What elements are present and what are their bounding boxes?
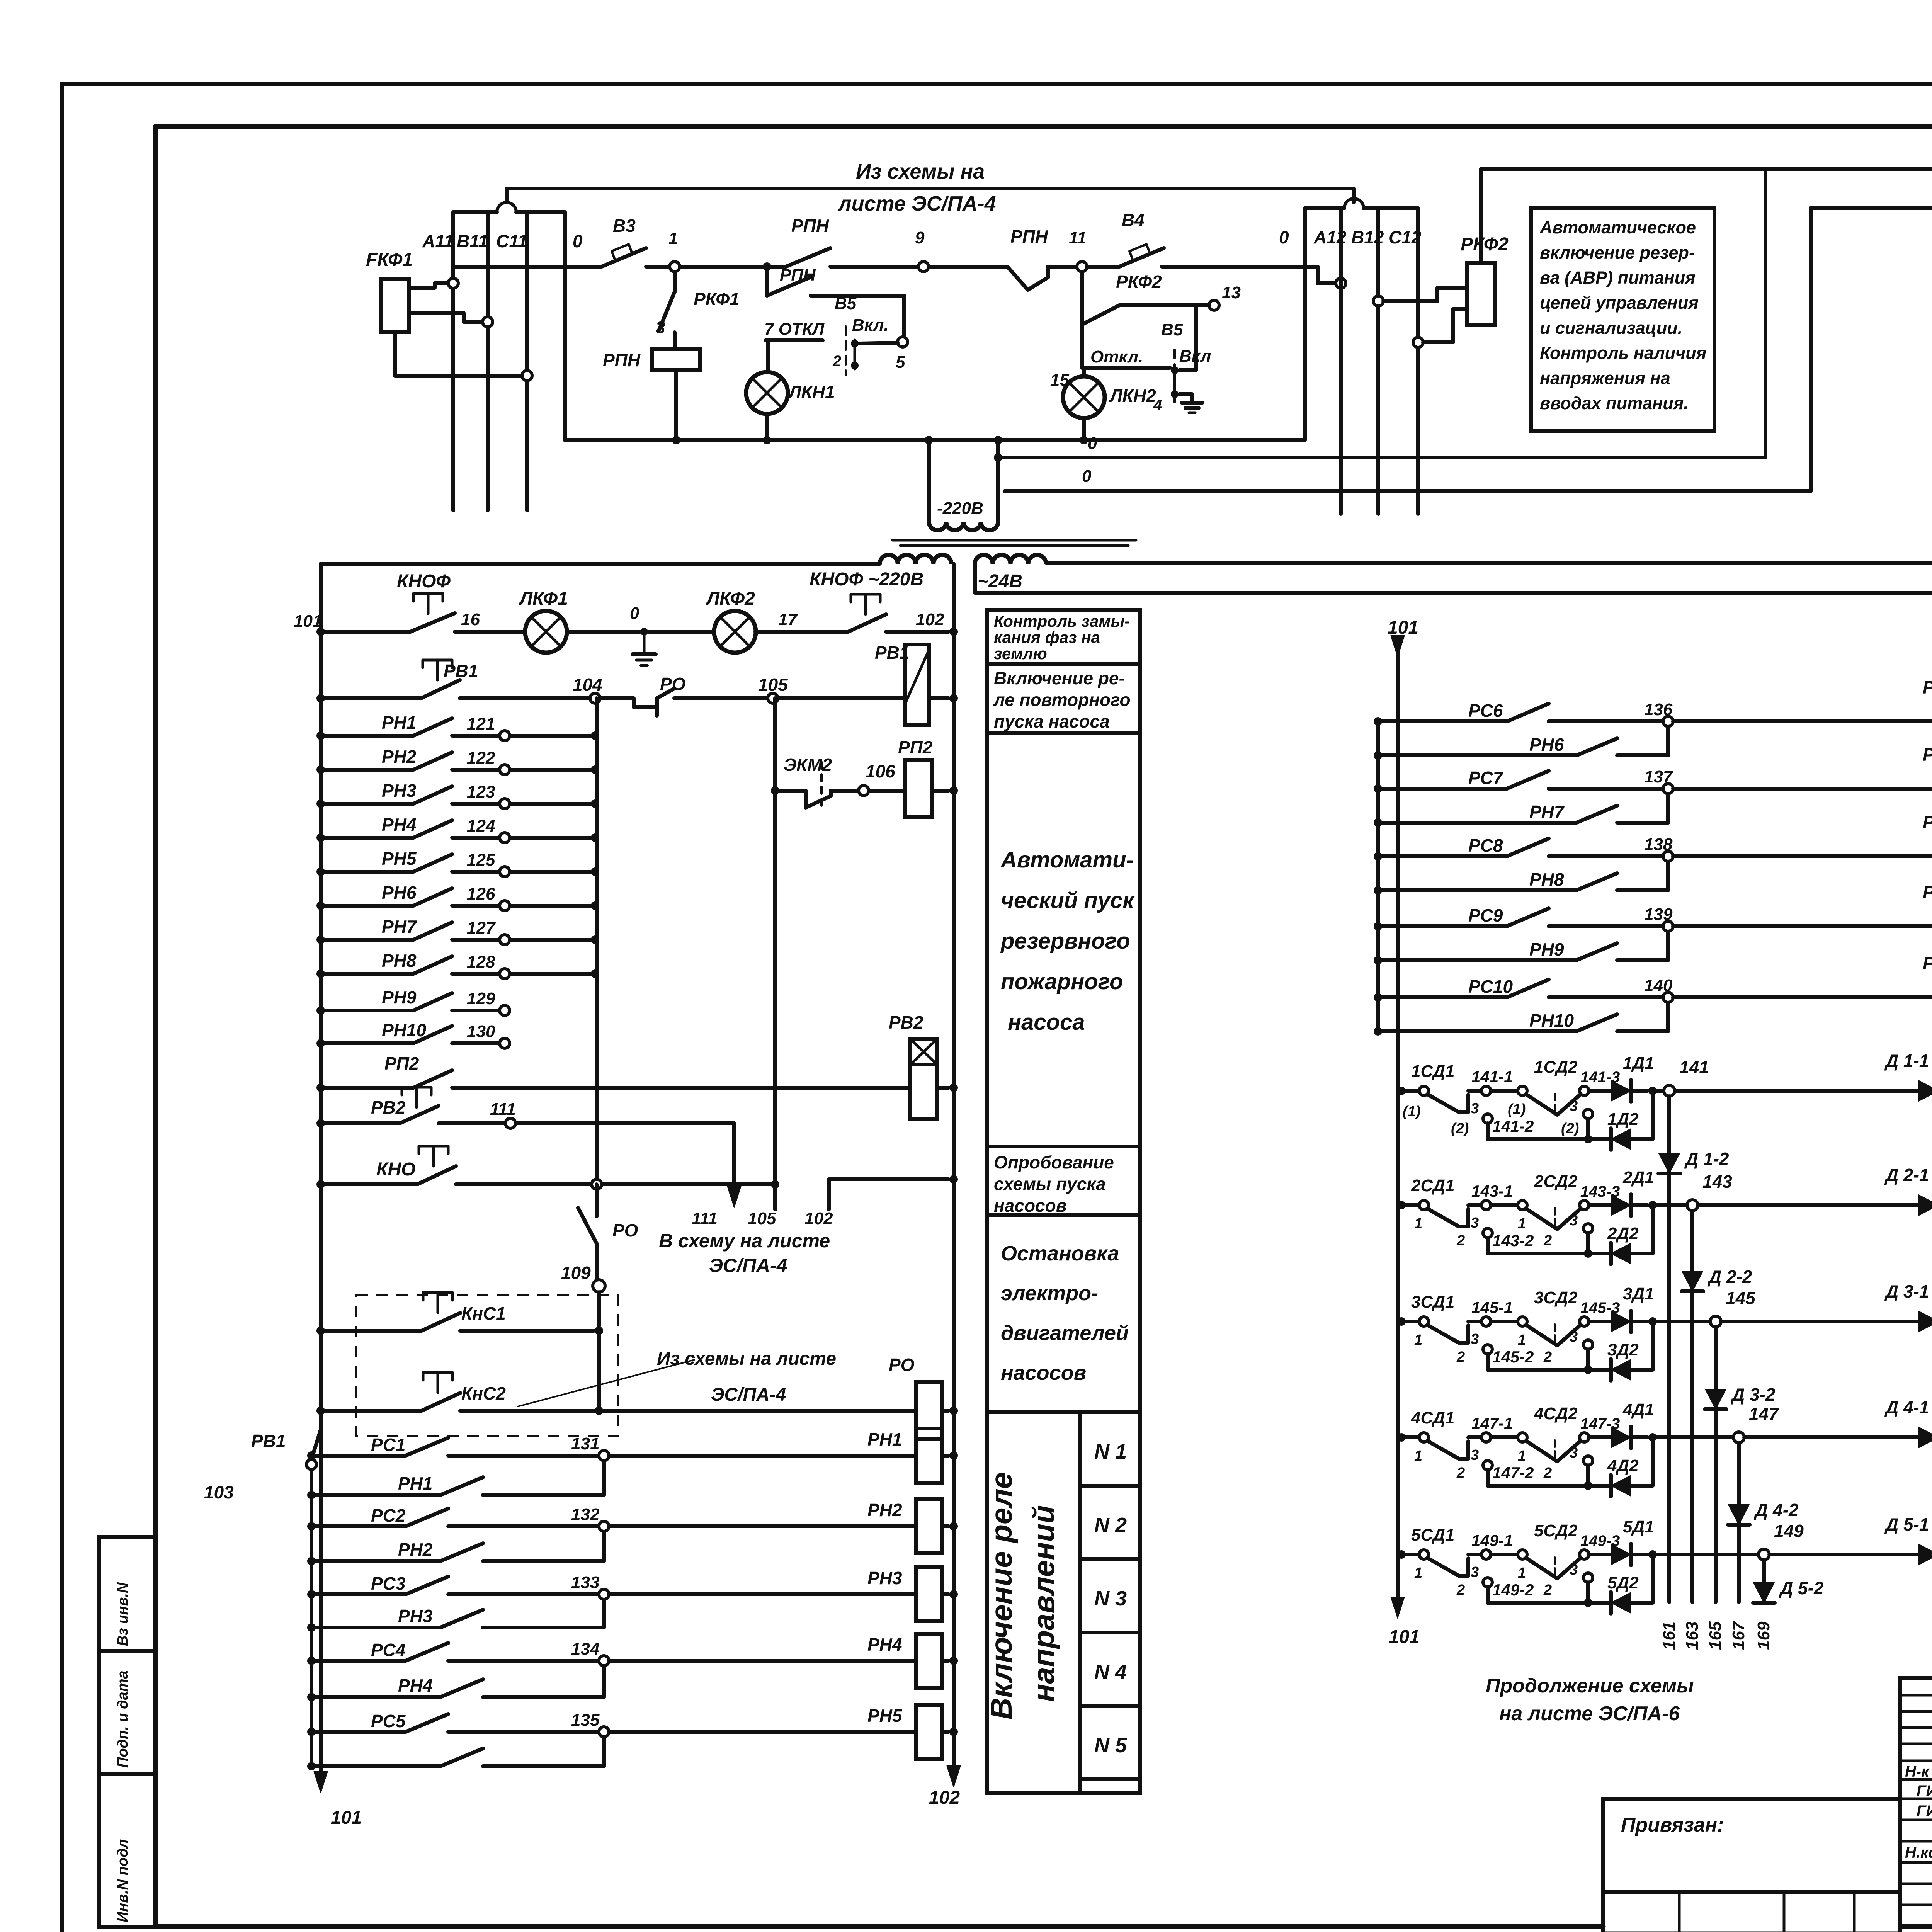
svg-text:149-2: 149-2 <box>1492 1581 1534 1599</box>
switch 3SD1 terminal 2 <box>1483 1345 1492 1354</box>
junction column 105 <box>773 698 777 1179</box>
svg-text:РН4: РН4 <box>398 1675 432 1696</box>
relay contact RN10 holding row <box>1374 1027 1382 1036</box>
svg-text:РП2: РП2 <box>384 1053 419 1073</box>
svg-text:КНОФ: КНОФ <box>397 571 451 592</box>
svg-text:КнС2: КнС2 <box>461 1383 506 1403</box>
svg-text:(1): (1) <box>1403 1104 1420 1120</box>
svg-text:109: 109 <box>561 1263 591 1283</box>
wire to sheet ES/PA-7 (lower) <box>1811 206 1932 210</box>
transformer primary -220V <box>927 440 931 522</box>
svg-text:5Д2: 5Д2 <box>1607 1573 1639 1592</box>
svg-text:Вз инв.N: Вз инв.N <box>115 1582 131 1646</box>
svg-text:Д 5-2: Д 5-2 <box>1779 1578 1824 1598</box>
wire C12 to RKF2 coil <box>1413 337 1423 347</box>
svg-text:Продолжение схемы: Продолжение схемы <box>1486 1675 1694 1697</box>
node 106 <box>831 789 859 793</box>
diode D3-2 <box>1705 1389 1726 1409</box>
diode D2-1 <box>1698 1203 1918 1207</box>
bypass branch with diode 3D2 (net 145-2) <box>1488 1368 1588 1372</box>
svg-text:130: 130 <box>467 1022 495 1041</box>
svg-text:В5: В5 <box>835 294 857 313</box>
relay contact RN3 holding row <box>307 1623 316 1632</box>
svg-text:4СД2: 4СД2 <box>1534 1404 1578 1423</box>
svg-text:0: 0 <box>1082 467 1092 486</box>
svg-text:9: 9 <box>915 228 925 247</box>
rail 101 (left ladder) <box>321 562 880 566</box>
svg-text:РС4: РС4 <box>371 1640 405 1660</box>
wire LKN2 to bottom rail <box>1082 418 1086 440</box>
relay contact RS3 row (net 133) <box>307 1590 316 1599</box>
svg-text:1: 1 <box>668 229 678 248</box>
svg-text:РН3: РН3 <box>867 1568 902 1588</box>
relay contact RPN (third, to node 5) <box>763 262 771 271</box>
svg-text:Д 3-1: Д 3-1 <box>1884 1281 1929 1301</box>
svg-text:Включение реле: Включение реле <box>984 1472 1018 1719</box>
svg-text:ЭС/ПА-4: ЭС/ПА-4 <box>711 1384 786 1405</box>
relay contact RN4 row (net 124) <box>321 836 413 840</box>
svg-text:В4: В4 <box>1122 210 1145 230</box>
relay contact RN6 holding row <box>1374 751 1382 760</box>
svg-text:169: 169 <box>1754 1621 1773 1650</box>
svg-text:3: 3 <box>1471 1100 1479 1117</box>
pushbutton KnS1 row <box>321 1329 422 1333</box>
wire net 169 <box>1762 1560 1766 1602</box>
svg-text:125: 125 <box>467 850 495 869</box>
svg-text:163: 163 <box>1683 1622 1702 1650</box>
svg-text:Из схемы на: Из схемы на <box>856 160 985 183</box>
svg-text:133: 133 <box>571 1573 599 1592</box>
svg-text:насосов: насосов <box>994 1196 1067 1216</box>
svg-text:РН10: РН10 <box>382 1020 426 1040</box>
bottom rail of top circuit (0) <box>565 438 1305 442</box>
svg-text:пожарного: пожарного <box>1001 969 1123 994</box>
svg-text:17: 17 <box>778 610 798 629</box>
pushbutton KNOF (second) <box>848 614 886 632</box>
svg-text:Д 1-2: Д 1-2 <box>1684 1149 1729 1169</box>
svg-text:РН3: РН3 <box>398 1606 433 1626</box>
svg-text:Откл.: Откл. <box>1090 347 1143 366</box>
svg-text:1: 1 <box>1414 1448 1422 1464</box>
relay contact RN3 row (net 123) <box>321 802 413 806</box>
svg-text:РН4: РН4 <box>382 815 416 835</box>
svg-text:2: 2 <box>1543 1233 1552 1249</box>
pushbutton KnS2 row <box>321 1409 422 1413</box>
svg-text:105: 105 <box>748 1209 776 1228</box>
svg-text:Д 3-2: Д 3-2 <box>1730 1384 1776 1405</box>
node 147 <box>1653 1435 1733 1439</box>
svg-text:3: 3 <box>1570 1445 1578 1461</box>
wire V4 to bus A12 <box>1162 265 1318 269</box>
svg-text:ЛКФ1: ЛКФ1 <box>519 588 568 609</box>
relay contact RN9 row (net 129) <box>321 1009 413 1012</box>
svg-text:Инв.N подл: Инв.N подл <box>115 1839 131 1922</box>
svg-text:102: 102 <box>916 610 944 629</box>
svg-text:напряжения на: напряжения на <box>1540 368 1670 388</box>
svg-text:4СД1: 4СД1 <box>1411 1408 1455 1427</box>
svg-text:1: 1 <box>1414 1565 1422 1581</box>
svg-text:Включение ре-: Включение ре- <box>994 668 1125 688</box>
svg-text:102: 102 <box>929 1787 960 1808</box>
svg-text:149: 149 <box>1774 1521 1804 1541</box>
svg-text:направлений: направлений <box>1027 1505 1061 1702</box>
relay contact RS9 row (net 139) <box>1374 922 1382 930</box>
wire node1 to RPN contact <box>680 265 786 269</box>
svg-text:землю: землю <box>994 645 1047 663</box>
svg-text:РН10: РН10 <box>1923 953 1932 973</box>
svg-text:РН1: РН1 <box>398 1473 432 1493</box>
wire 105 down to sheet ES/PA-4 <box>773 1184 777 1209</box>
svg-text:Вкл.: Вкл. <box>852 316 889 335</box>
svg-text:N 3: N 3 <box>1094 1587 1127 1610</box>
svg-text:111: 111 <box>692 1209 718 1228</box>
svg-text:N 2: N 2 <box>1094 1514 1127 1537</box>
wire RKF2 coil up to ES/PA-7 line <box>1479 169 1483 263</box>
wire A11 to switch V3 <box>453 265 602 269</box>
svg-text:167: 167 <box>1729 1621 1748 1650</box>
bypass branch with diode 4D2 (net 147-2) <box>1488 1484 1588 1488</box>
svg-text:РН9: РН9 <box>1923 882 1932 902</box>
diode 5D1 <box>1589 1553 1611 1556</box>
svg-text:РКФ1: РКФ1 <box>694 289 740 309</box>
svg-text:1Д2: 1Д2 <box>1607 1110 1639 1129</box>
switch 4SD2 terminal 2 <box>1583 1456 1593 1465</box>
svg-text:(2): (2) <box>1451 1121 1469 1137</box>
svg-text:РВ2: РВ2 <box>371 1097 406 1117</box>
svg-text:ГИП: ГИП <box>1917 1803 1932 1820</box>
relay contact RS5 row (net 135) <box>307 1728 316 1736</box>
relay contact RN9 holding row <box>1374 956 1382 964</box>
svg-text:двигателей: двигателей <box>1001 1321 1129 1345</box>
svg-text:РПН: РПН <box>791 216 829 236</box>
relay contact RP2 row <box>321 1086 413 1090</box>
switch 2SD2 <box>1491 1203 1517 1207</box>
svg-text:РН7: РН7 <box>1923 745 1932 765</box>
wire to sheet ES/PA-7 (upper) <box>1481 167 1932 171</box>
svg-text:кания фаз на: кания фаз на <box>994 628 1100 646</box>
svg-text:РС7: РС7 <box>1468 768 1504 788</box>
svg-text:2: 2 <box>832 353 841 370</box>
diode D5-1 <box>1769 1553 1918 1556</box>
svg-text:ЛКН2: ЛКН2 <box>1109 386 1156 406</box>
svg-text:схемы пуска: схемы пуска <box>994 1174 1106 1194</box>
svg-text:КнС1: КнС1 <box>461 1303 506 1323</box>
svg-text:3: 3 <box>1570 1213 1578 1229</box>
svg-text:1Д1: 1Д1 <box>1623 1054 1654 1073</box>
wire LKN1 to bottom rail <box>765 414 769 440</box>
svg-text:7 ОТКЛ: 7 ОТКЛ <box>764 320 825 338</box>
node 149 <box>1653 1553 1759 1556</box>
relay contact RS4 row (net 134) <box>307 1656 316 1665</box>
svg-text:РО: РО <box>612 1220 638 1240</box>
svg-text:13: 13 <box>1222 283 1241 302</box>
svg-text:143: 143 <box>1702 1172 1732 1192</box>
bus A11 B11 C11 0 (left feed) <box>451 212 455 510</box>
rail 102 (left ladder) <box>952 564 956 1770</box>
svg-text:РС10: РС10 <box>1468 976 1513 997</box>
svg-text:4Д2: 4Д2 <box>1607 1456 1639 1475</box>
svg-text:РН10: РН10 <box>1529 1010 1574 1031</box>
svg-text:~24В: ~24В <box>978 571 1022 592</box>
svg-text:2: 2 <box>1456 1582 1465 1598</box>
switch 2SD2 terminal 2 <box>1583 1224 1593 1233</box>
svg-text:РН4: РН4 <box>867 1634 902 1655</box>
switch 4SD2 <box>1491 1435 1517 1439</box>
svg-text:147-1: 147-1 <box>1471 1414 1513 1432</box>
svg-text:Д 5-1: Д 5-1 <box>1884 1514 1929 1534</box>
switch 2SD1 <box>1397 1201 1406 1209</box>
svg-text:РН6: РН6 <box>382 883 417 903</box>
junction column 104 <box>595 698 599 1184</box>
svg-text:122: 122 <box>467 748 495 767</box>
svg-text:РПН: РПН <box>1010 226 1048 247</box>
svg-text:А11: А11 <box>422 231 454 251</box>
svg-text:РС2: РС2 <box>371 1505 406 1526</box>
svg-text:РВ1: РВ1 <box>251 1431 286 1451</box>
svg-text:3СД2: 3СД2 <box>1534 1288 1578 1307</box>
svg-text:4Д1: 4Д1 <box>1622 1400 1654 1419</box>
svg-text:Д 4-1: Д 4-1 <box>1884 1397 1929 1417</box>
switch 5SD2 terminal 2 <box>1583 1573 1593 1582</box>
diode D5-2 <box>1753 1583 1774 1603</box>
svg-text:электро-: электро- <box>1001 1282 1098 1305</box>
svg-text:(2): (2) <box>1561 1121 1579 1137</box>
svg-text:2: 2 <box>1456 1349 1465 1365</box>
switch 1SD2 terminal 2 <box>1583 1109 1593 1119</box>
svg-text:резервного: резервного <box>1000 929 1130 954</box>
svg-text:ЛКН1: ЛКН1 <box>788 382 835 402</box>
wire net 167 <box>1737 1443 1741 1602</box>
svg-text:N 1: N 1 <box>1094 1440 1127 1463</box>
svg-text:2: 2 <box>1456 1233 1465 1249</box>
switch 5SD1 <box>1397 1550 1406 1559</box>
svg-text:3: 3 <box>1570 1562 1578 1578</box>
svg-text:ческий пуск: ческий пуск <box>1001 888 1135 913</box>
svg-text:2Д2: 2Д2 <box>1607 1224 1639 1243</box>
svg-text:В3: В3 <box>613 216 636 236</box>
diode D2-2 <box>1682 1271 1703 1291</box>
relay contact RS8 row (net 138) <box>1374 852 1382 861</box>
svg-text:101: 101 <box>294 612 322 631</box>
relay contact RKF2 branch <box>1080 272 1084 368</box>
svg-text:129: 129 <box>467 989 495 1008</box>
switch 5SD2 <box>1491 1553 1517 1556</box>
svg-text:145-1: 145-1 <box>1471 1298 1513 1316</box>
wire net 161 <box>1667 1096 1671 1602</box>
signal lamp LKF2 <box>648 630 714 634</box>
svg-text:149-1: 149-1 <box>1471 1531 1513 1549</box>
svg-text:131: 131 <box>571 1434 599 1453</box>
node 143 <box>1653 1203 1687 1207</box>
diode D4-1 <box>1744 1435 1918 1439</box>
svg-text:ГИО: ГИО <box>1917 1782 1932 1799</box>
svg-text:0: 0 <box>573 231 583 251</box>
svg-text:КНОФ ~220В: КНОФ ~220В <box>810 569 923 590</box>
svg-text:листе ЭС/ПА-4: листе ЭС/ПА-4 <box>837 192 996 215</box>
ground at V5-2 <box>1179 394 1192 403</box>
svg-text:3: 3 <box>1471 1331 1479 1347</box>
switch 4SD1 <box>1397 1433 1406 1442</box>
svg-text:123: 123 <box>467 782 495 801</box>
svg-text:141: 141 <box>1679 1057 1709 1077</box>
relay contact RKF1 branch <box>673 272 677 292</box>
net 0 wire (upper) <box>994 453 1002 462</box>
svg-text:3: 3 <box>1570 1329 1578 1345</box>
svg-text:Д 1-1: Д 1-1 <box>1884 1051 1929 1071</box>
svg-text:121: 121 <box>467 714 495 733</box>
svg-text:161: 161 <box>1660 1622 1679 1650</box>
relay contact RN1 row (net 121) <box>321 734 413 738</box>
diode 1D1 <box>1589 1089 1611 1093</box>
svg-text:РС9: РС9 <box>1468 905 1503 925</box>
svg-text:143-2: 143-2 <box>1492 1231 1534 1250</box>
svg-text:(1): (1) <box>1508 1101 1526 1117</box>
svg-text:РС5: РС5 <box>371 1711 406 1731</box>
diode 3D1 <box>1589 1320 1611 1323</box>
wire 111 down to sheet ES/PA-4 <box>732 1123 736 1192</box>
svg-text:РН9: РН9 <box>1529 939 1564 959</box>
diode D4-2 <box>1728 1505 1749 1525</box>
switch 1SD1 <box>1397 1087 1406 1095</box>
svg-text:1: 1 <box>1414 1216 1422 1232</box>
switch 4SD1 terminal 2 <box>1483 1461 1492 1470</box>
dashed box around KnS1 KnS2 <box>356 1295 618 1436</box>
svg-text:3Д2: 3Д2 <box>1607 1340 1639 1359</box>
diode D1-2 <box>1659 1153 1680 1173</box>
svg-text:3СД1: 3СД1 <box>1411 1293 1455 1311</box>
svg-text:3Д1: 3Д1 <box>1623 1284 1654 1303</box>
svg-text:РН8: РН8 <box>1529 869 1564 889</box>
svg-text:132: 132 <box>571 1505 600 1524</box>
svg-text:Н.конт.: Н.конт. <box>1905 1844 1932 1861</box>
privyazan table <box>1603 1799 1900 1932</box>
svg-text:Подп. и дата: Подп. и дата <box>115 1670 131 1768</box>
svg-text:В11: В11 <box>457 231 488 251</box>
svg-text:ва (АВР) питания: ва (АВР) питания <box>1540 268 1696 287</box>
svg-text:Д 2-2: Д 2-2 <box>1707 1267 1752 1287</box>
transformer core <box>893 539 1136 542</box>
svg-text:1СД2: 1СД2 <box>1534 1058 1578 1077</box>
contact RO on column <box>595 1184 599 1216</box>
svg-text:Д 2-1: Д 2-1 <box>1884 1165 1929 1185</box>
svg-text:102: 102 <box>804 1209 833 1228</box>
wire 102 down to sheet ES/PA-4 <box>829 1179 949 1209</box>
node 13 <box>1119 303 1209 307</box>
relay contact RS6 row (net 136) <box>1374 717 1382 726</box>
relay contact RN5 holding row <box>307 1762 316 1770</box>
svg-text:РП2: РП2 <box>898 737 933 757</box>
svg-text:КНО: КНО <box>376 1159 416 1180</box>
svg-text:128: 128 <box>467 952 495 971</box>
svg-text:Привязан:: Привязан: <box>1621 1814 1724 1836</box>
svg-text:В12: В12 <box>1351 227 1384 247</box>
svg-text:127: 127 <box>467 918 496 937</box>
relay contact RN4 holding row <box>307 1693 316 1701</box>
svg-text:Остановка: Остановка <box>1001 1242 1119 1265</box>
svg-text:В схему на листе: В схему на листе <box>659 1230 830 1252</box>
wire RPN coil to bottom rail <box>674 370 678 440</box>
switch 2SD1 terminal 2 <box>1483 1228 1492 1238</box>
svg-text:РН6: РН6 <box>1529 735 1564 755</box>
svg-text:-220В: -220В <box>937 499 983 518</box>
svg-text:1: 1 <box>1518 1332 1526 1348</box>
svg-text:103: 103 <box>204 1482 234 1502</box>
svg-text:1: 1 <box>1518 1565 1526 1581</box>
relay contact RN8 row (net 128) <box>321 972 413 976</box>
svg-text:135: 135 <box>571 1711 600 1730</box>
svg-text:145-2: 145-2 <box>1492 1348 1534 1366</box>
svg-text:145: 145 <box>1726 1288 1756 1308</box>
svg-text:2СД1: 2СД1 <box>1411 1176 1455 1195</box>
wire to sheet ES/PA-6 (lower) <box>975 564 1932 593</box>
relay contact RN7 holding row <box>1374 818 1382 827</box>
relay contact RN8 holding row <box>1374 886 1382 895</box>
wire B12 to RKF2 coil <box>1373 296 1383 306</box>
svg-text:РН1: РН1 <box>867 1429 902 1449</box>
diode 4D1 <box>1589 1435 1611 1439</box>
svg-text:3: 3 <box>1471 1215 1479 1231</box>
relay contact RS1 row (net 131) <box>307 1451 316 1460</box>
svg-text:ЛКФ2: ЛКФ2 <box>706 588 755 609</box>
svg-text:С11: С11 <box>496 231 527 251</box>
relay contact RN7 row (net 127) <box>321 938 413 942</box>
svg-text:5Д1: 5Д1 <box>1623 1517 1654 1536</box>
svg-text:1: 1 <box>1518 1216 1526 1232</box>
svg-text:ле повторного: ле повторного <box>993 690 1131 710</box>
svg-text:РН7: РН7 <box>1529 802 1565 822</box>
svg-text:РКФ2: РКФ2 <box>1461 234 1509 255</box>
wire from sheet ES/PA-4 (top line) <box>505 189 509 202</box>
svg-text:РС3: РС3 <box>371 1573 406 1594</box>
svg-text:насоса: насоса <box>1008 1010 1085 1035</box>
svg-text:РН2: РН2 <box>867 1500 902 1520</box>
svg-text:5: 5 <box>896 353 905 372</box>
svg-text:пуска насоса: пуска насоса <box>994 711 1110 731</box>
svg-text:РКФ2: РКФ2 <box>1116 272 1162 292</box>
svg-text:16: 16 <box>461 610 480 629</box>
svg-text:на листе ЭС/ПА-6: на листе ЭС/ПА-6 <box>1499 1702 1680 1725</box>
svg-text:1СД1: 1СД1 <box>1411 1062 1455 1081</box>
net 0 wire (lower) <box>1005 489 1811 493</box>
wire to node 9 <box>830 265 918 269</box>
relay contact RS7 row (net 137) <box>1374 784 1382 793</box>
svg-text:насосов: насосов <box>1001 1361 1086 1384</box>
svg-text:РН7: РН7 <box>382 917 417 937</box>
svg-text:2: 2 <box>1543 1349 1552 1365</box>
svg-text:РС8: РС8 <box>1468 835 1503 855</box>
node 145 <box>1653 1320 1710 1323</box>
svg-text:РО: РО <box>889 1355 915 1375</box>
svg-text:2: 2 <box>1456 1465 1465 1481</box>
svg-text:5СД1: 5СД1 <box>1411 1526 1455 1544</box>
relay contact RN5 row (net 125) <box>321 870 413 874</box>
svg-text:В5: В5 <box>1161 320 1183 339</box>
transformer secondary 24V winding <box>975 555 1046 564</box>
svg-text:ЭС/ПА-4: ЭС/ПА-4 <box>709 1255 787 1276</box>
relay contact RS10 row (net 1310) <box>1374 993 1382 1002</box>
relay contact RN2 holding row <box>307 1557 316 1565</box>
svg-text:РН2: РН2 <box>398 1539 433 1560</box>
node 141 <box>1653 1089 1664 1093</box>
wire net 165 <box>1714 1327 1718 1602</box>
svg-text:включение резер-: включение резер- <box>1540 243 1695 262</box>
svg-text:143-1: 143-1 <box>1471 1182 1513 1200</box>
svg-text:N 5: N 5 <box>1094 1734 1127 1757</box>
leader to label from ES/PA-4 <box>518 1360 694 1406</box>
signal lamp LKN2 <box>1084 366 1170 370</box>
svg-text:101: 101 <box>1388 617 1418 638</box>
svg-text:147: 147 <box>1749 1404 1779 1424</box>
